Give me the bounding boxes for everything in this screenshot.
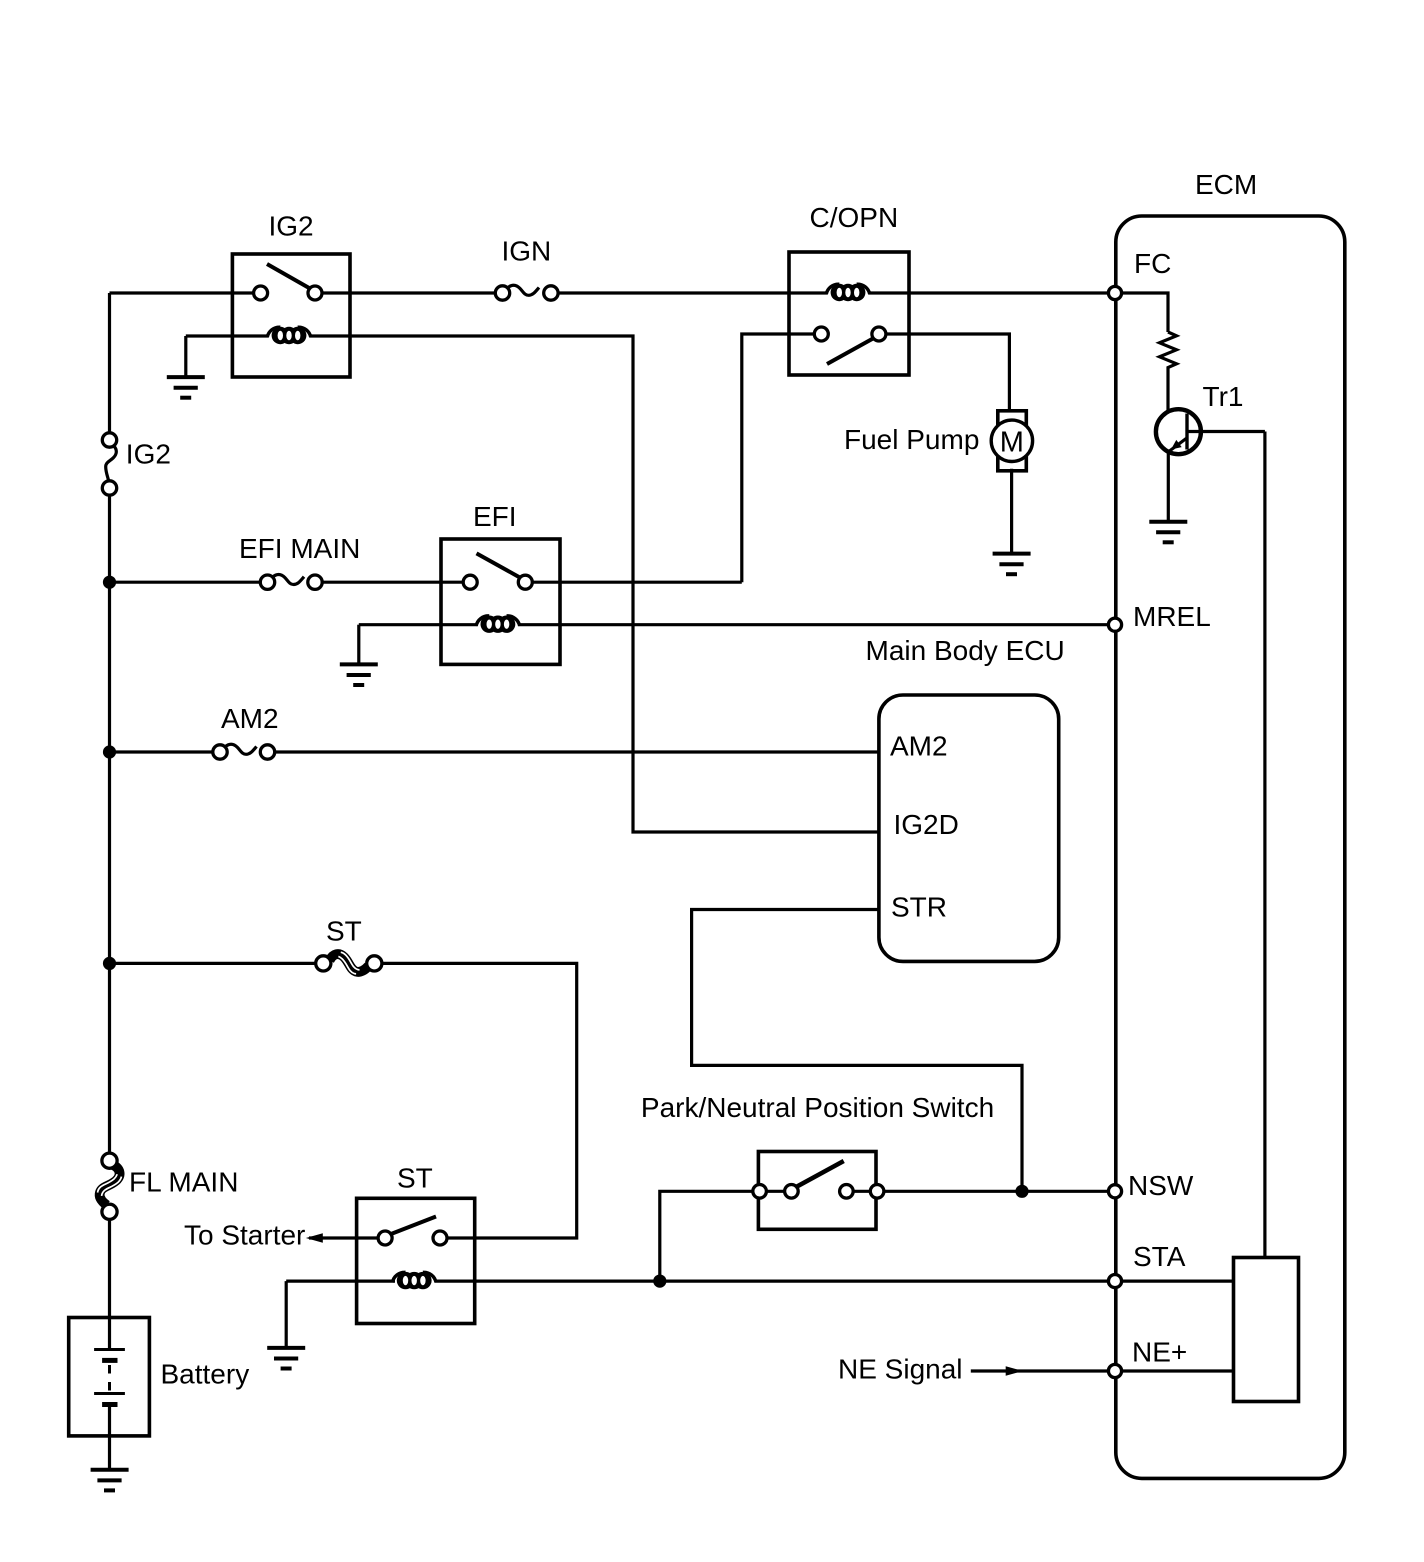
junction rail AM2 xyxy=(103,745,116,758)
wire ST coil to ground xyxy=(285,1281,288,1348)
wire IG2 coil to ground xyxy=(184,336,187,377)
wire NE+ to driver box xyxy=(1122,1369,1234,1372)
junction rail ST xyxy=(103,957,116,970)
wire IG2 coil to IG2D (vertical) xyxy=(350,336,879,832)
svg-text:Fuel Pump: Fuel Pump xyxy=(844,424,979,455)
Main Body ECU box xyxy=(879,695,1059,961)
junction STR/NSW xyxy=(1015,1185,1028,1198)
wire To Starter arrow xyxy=(309,1236,378,1239)
svg-text:NE Signal: NE Signal xyxy=(838,1354,963,1385)
svg-text:IG2: IG2 xyxy=(126,439,171,470)
fuse EFI MAIN xyxy=(260,574,322,589)
wire NE Signal arrow xyxy=(971,1369,1109,1372)
fuse IG2 (left rail) xyxy=(102,433,116,495)
wire C/OPN coil to FC node xyxy=(869,291,1109,294)
junction STA wire xyxy=(653,1275,666,1288)
svg-text:C/OPN: C/OPN xyxy=(810,202,899,233)
svg-text:M: M xyxy=(1000,427,1024,459)
svg-text:STA: STA xyxy=(1133,1241,1186,1272)
starter driver box (inside ECM) xyxy=(1234,1258,1299,1402)
Park/Neutral Position Switch xyxy=(753,1152,884,1230)
relay C/OPN xyxy=(789,252,909,375)
wire IG2 relay to IGN fuse xyxy=(350,291,496,294)
svg-text:IGN: IGN xyxy=(502,236,552,267)
svg-text:IG2D: IG2D xyxy=(894,809,959,840)
svg-text:NSW: NSW xyxy=(1128,1170,1194,1201)
wire IGN fuse to C/OPN coil xyxy=(558,291,827,294)
ground (ST relay) xyxy=(267,1348,305,1369)
ground (IG2 relay) xyxy=(167,377,205,398)
node STA xyxy=(1108,1275,1121,1288)
svg-text:ST: ST xyxy=(326,916,362,947)
node NSW xyxy=(1108,1185,1121,1198)
wire ST fuse to ST relay xyxy=(382,963,577,1238)
wire junction to STA node xyxy=(660,1279,1109,1282)
svg-text:ST: ST xyxy=(397,1163,433,1194)
relay ST xyxy=(286,1198,660,1323)
svg-text:NE+: NE+ xyxy=(1132,1337,1187,1368)
svg-text:EFI MAIN: EFI MAIN xyxy=(239,533,360,564)
node MREL xyxy=(1108,618,1121,631)
wire Tr1 collector down to driver box xyxy=(1263,432,1266,1258)
svg-text:To Starter: To Starter xyxy=(184,1220,305,1251)
svg-text:AM2: AM2 xyxy=(890,731,948,762)
ground (EFI relay) xyxy=(340,664,378,685)
transistor Tr1 xyxy=(1156,409,1265,522)
svg-text:Battery: Battery xyxy=(161,1359,250,1390)
relay EFI xyxy=(359,539,1109,664)
wire FC to resistor xyxy=(1122,293,1168,332)
wire left rail top segment xyxy=(108,293,111,432)
junction rail EFI MAIN xyxy=(103,576,116,589)
svg-text:EFI: EFI xyxy=(473,501,517,532)
node FC xyxy=(1108,286,1121,299)
wire rail to battery xyxy=(108,1221,111,1318)
wire resistor to transistor base xyxy=(1168,371,1186,424)
wire C/OPN switch right to fuel pump xyxy=(886,334,1010,412)
wire STA to driver box xyxy=(1122,1279,1234,1282)
wire fuel pump to ground xyxy=(1010,469,1013,554)
wire AM2 fuse to Main Body ECU xyxy=(275,750,879,753)
ground (battery) xyxy=(91,1470,129,1491)
coil C/OPN xyxy=(831,284,848,301)
svg-text:STR: STR xyxy=(891,892,947,923)
wire rail to ST fuse xyxy=(110,962,317,965)
ground (fuel pump) xyxy=(993,554,1031,575)
fuse IGN xyxy=(495,285,558,300)
svg-text:ECM: ECM xyxy=(1195,169,1257,200)
resistor (ECM pull-up) xyxy=(1160,332,1177,371)
wire EFI MAIN fuse to EFI relay xyxy=(322,581,463,584)
wire top horizontal: rail to IG2 relay xyxy=(110,291,254,294)
fusible link ST xyxy=(316,952,382,974)
svg-text:IG2: IG2 xyxy=(269,211,314,242)
wire left rail middle xyxy=(108,496,111,1161)
battery xyxy=(69,1318,150,1436)
wire P/N switch to NSW node xyxy=(884,1190,1109,1193)
coil EFI xyxy=(359,623,477,626)
fuel pump motor xyxy=(991,411,1032,471)
ground (Tr1 emitter) xyxy=(1149,522,1187,543)
wire EFI coil to ground xyxy=(357,625,360,665)
node NE+ xyxy=(1108,1364,1121,1377)
svg-text:AM2: AM2 xyxy=(221,703,279,734)
fuse AM2 xyxy=(213,744,275,759)
svg-text:MREL: MREL xyxy=(1133,601,1211,632)
svg-text:FC: FC xyxy=(1134,248,1171,279)
wire STR routing xyxy=(692,910,1022,1192)
svg-text:FL MAIN: FL MAIN xyxy=(129,1167,238,1198)
wire junction up to P/N switch xyxy=(660,1191,759,1281)
ECM box xyxy=(1116,216,1345,1478)
svg-text:Tr1: Tr1 xyxy=(1203,381,1244,412)
svg-text:Main Body ECU: Main Body ECU xyxy=(866,635,1065,666)
svg-text:Park/Neutral Position Switch: Park/Neutral Position Switch xyxy=(641,1092,994,1123)
wire rail to AM2 fuse xyxy=(110,750,214,753)
coil IG2 xyxy=(186,334,268,337)
fusible link FL MAIN xyxy=(98,1153,122,1219)
coil ST xyxy=(286,1279,395,1282)
wire battery to ground xyxy=(108,1436,111,1470)
relay IG2 xyxy=(186,254,350,377)
wire C/OPN switch left to EFI line xyxy=(742,334,815,582)
wire rail to EFI MAIN fuse xyxy=(110,581,261,584)
